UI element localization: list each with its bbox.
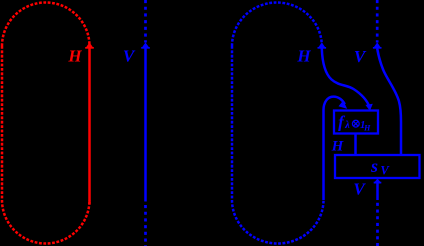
wire: dotted top arc of red loop (2, 3, 90, 47)
arrow into s_V box from below (up arrowhead with bar) (374, 179, 382, 184)
wire: dotted top of right V strand (376, 0, 379, 43)
wire: dotted top arc of blue loop (232, 3, 322, 46)
node arrow on right V strand (373, 42, 382, 48)
svg-text:H: H (296, 47, 311, 66)
wire: solid V sweep from V arrow to s_V box (377, 49, 401, 156)
wire: solid right side up from bottom arc, cap into f-box lambda input (324, 97, 345, 200)
wire: dotted left side of blue loop (231, 46, 234, 200)
svg-text:λ: λ (344, 120, 350, 131)
wire: dotted left side of red loop (1, 46, 4, 200)
otimes symbol drawn as circle+cross (352, 120, 359, 127)
svg-text:V: V (353, 180, 366, 199)
svg-text:H: H (331, 139, 345, 155)
svg-text:V: V (354, 47, 367, 66)
wire: solid right side of red loop (88, 49, 91, 205)
wire: solid middle of V strand (144, 49, 147, 202)
arrowhead into f-box right input (365, 104, 372, 111)
wire: solid connector f-box to s_V box (354, 134, 357, 156)
op box f_{lambda tensor 1_H} (334, 111, 378, 134)
wire: solid H sweep from arrow into f-box top (322, 49, 370, 108)
node arrow on blue loop (H) (318, 42, 327, 48)
wire: dotted output below s_V box (376, 203, 379, 246)
op box s_V (335, 155, 420, 178)
wire: dotted bottom arc of red loop (2, 200, 90, 244)
svg-text:H: H (363, 123, 371, 132)
wire: dotted top of V strand (144, 0, 147, 43)
svg-text:V: V (123, 47, 136, 66)
arrowhead into f-box left input (339, 100, 348, 109)
node arrow on V strand (141, 42, 150, 48)
node arrow on red loop (up arrowhead with bar) (85, 42, 94, 48)
wire: dotted bottom of V strand (144, 205, 147, 246)
svg-text:s: s (370, 156, 378, 176)
wire: solid stub below s_V box (376, 183, 379, 200)
wire: dotted bottom arc of blue loop (232, 200, 324, 244)
svg-text:H: H (67, 47, 82, 66)
